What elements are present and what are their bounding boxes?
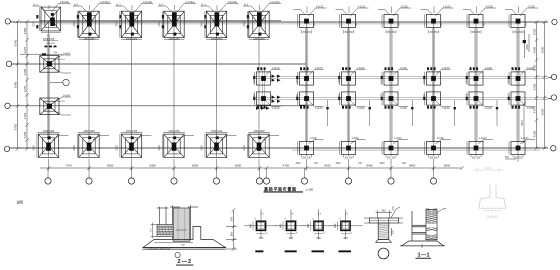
svg-text:J-3(J3a): J-3(J3a) — [60, 0, 70, 4]
node bubble Bp-right — [551, 74, 556, 79]
footing J-1 grid A5 — [205, 11, 227, 39]
footing J-1 grid D4 — [162, 133, 184, 158]
node bubble bottom 4 — [173, 168, 175, 178]
svg-text:1350 1350: 1350 1350 — [211, 38, 223, 41]
wire extension col x131.5 — [131, 159, 133, 171]
svg-text:350 350: 350 350 — [429, 32, 438, 34]
svg-text:2700: 2700 — [243, 21, 246, 27]
svg-text:1400: 1400 — [508, 78, 510, 84]
leader label footing D6 — [248, 133, 279, 140]
svg-text:2700: 2700 — [33, 21, 36, 27]
wire extension col x216.5 — [216, 159, 218, 171]
node bubble bottom 11 — [433, 168, 435, 178]
leader label footing A7 — [294, 8, 327, 16]
wire extension col x391 — [390, 159, 392, 171]
svg-text:2480: 2480 — [23, 27, 27, 34]
svg-text:9600: 9600 — [541, 108, 545, 115]
wire tie-beam column R4 gray — [432, 28, 434, 142]
svg-text:1400: 1400 — [314, 21, 316, 27]
svg-text:J-3(J3a): J-3(J3a) — [185, 0, 195, 4]
svg-text:1400: 1400 — [399, 21, 401, 27]
scale bar x255.3 — [255, 250, 263, 252]
svg-text:J-2(J2): J-2(J2) — [352, 137, 360, 140]
wire tie-beam column R1 gray — [305, 28, 307, 142]
svg-text:2700: 2700 — [116, 21, 119, 27]
footing J-4 grid C1 — [40, 98, 59, 115]
svg-text:J-3(J3): J-3(J3) — [485, 67, 493, 70]
svg-text:JL-1: JL-1 — [33, 3, 38, 6]
svg-text:350 350: 350 350 — [302, 32, 311, 34]
leader label footing D5 — [206, 133, 237, 140]
svg-text:850: 850 — [230, 231, 234, 236]
dim cluster below A1 — [42, 46, 57, 56]
node bubble bottom 3 — [131, 168, 133, 178]
svg-text:1350 1350: 1350 1350 — [83, 38, 95, 41]
node bubble bottom 6 — [259, 168, 261, 178]
svg-text:1400: 1400 — [339, 93, 341, 99]
leader label footing D10 — [436, 140, 451, 145]
svg-text:1400: 1400 — [254, 78, 256, 84]
svg-text:1400: 1400 — [484, 21, 486, 27]
detail section 2-2 column fill — [173, 208, 190, 241]
dimension chain bottom — [40, 166, 464, 170]
svg-text:3500: 3500 — [379, 163, 385, 165]
node bubble bottom 9 — [348, 168, 350, 178]
leader label footing Bp1 — [309, 70, 324, 76]
leader marks below D12 — [505, 156, 518, 162]
svg-text:JL-1: JL-1 — [116, 3, 121, 6]
footing J-1 grid D6 — [247, 133, 269, 158]
svg-text:1400: 1400 — [297, 78, 299, 84]
detail section 2-2 ground lines — [143, 247, 226, 249]
leader label footing Cp5 — [478, 101, 493, 107]
wire extension col x89 — [88, 159, 90, 171]
svg-text:8700: 8700 — [14, 39, 18, 46]
grid line column 7 — [306, 22, 308, 156]
node bubble A-right — [552, 19, 557, 24]
svg-text:J-3(J3): J-3(J3) — [357, 67, 365, 70]
leader label footing Bp3 — [393, 70, 408, 76]
svg-text:8430: 8430 — [324, 163, 331, 167]
wire tie-beam row D secondary gray — [292, 149, 540, 151]
svg-text:8280: 8280 — [149, 163, 156, 167]
detail section 2-2 right dim — [226, 208, 237, 251]
svg-text:说明: 说明 — [17, 199, 23, 204]
grid line column 8 — [348, 22, 350, 156]
svg-text:J-3(J3): J-3(J3) — [315, 107, 323, 110]
leader label footing A1 — [33, 4, 71, 13]
svg-text:1400: 1400 — [508, 93, 510, 99]
svg-text:J-3(J3a): J-3(J3a) — [143, 0, 153, 4]
footing J-3 grid Bp1 — [298, 72, 314, 85]
svg-text:J-2(J2): J-2(J2) — [521, 137, 529, 140]
svg-text:1350 1350: 1350 1350 — [43, 130, 55, 133]
svg-text:J-2(J2): J-2(J2) — [316, 5, 324, 8]
node bubble bottom 5 — [216, 168, 218, 178]
wire stub column x369.75 — [369, 100, 371, 126]
svg-text:J-2(J2): J-2(J2) — [401, 5, 409, 8]
footing J-3 grid Cp1 — [298, 92, 314, 105]
svg-text:1400: 1400 — [254, 93, 256, 99]
svg-text:J-3(J3): J-3(J3) — [272, 107, 280, 110]
detail T marker circle — [378, 248, 389, 259]
footing J-2 grid A7 — [298, 14, 314, 27]
svg-text:J-3(J3a): J-3(J3a) — [228, 0, 238, 4]
grid line column 5 — [216, 22, 218, 158]
arrow marks col6a row Cp — [272, 96, 281, 103]
leader label footing Cp0 — [266, 101, 281, 107]
svg-text:J-3(J3): J-3(J3) — [527, 107, 535, 110]
footing J-1 grid A1 — [40, 7, 61, 32]
footing J-2 grid A9 — [382, 14, 398, 27]
svg-text:1400: 1400 — [339, 78, 341, 84]
scale bar x311.5 — [312, 250, 325, 252]
svg-text:J-3(J3): J-3(J3) — [315, 67, 323, 70]
footing J-3 grid Bp2 — [340, 72, 356, 85]
svg-text:1400: 1400 — [466, 93, 468, 99]
svg-text:400: 400 — [249, 223, 253, 228]
footing J-1 grid D5 — [205, 133, 227, 158]
svg-text:1400: 1400 — [381, 93, 383, 99]
svg-text:4200: 4200 — [23, 68, 27, 75]
svg-text:240: 240 — [381, 209, 386, 213]
node bubble B-left — [6, 61, 11, 66]
svg-text:J-3(J3): J-3(J3) — [400, 67, 408, 70]
detail 1-1 tie lines — [412, 225, 426, 234]
wire tie-beam column R6 gray — [517, 28, 519, 142]
svg-text:350 350: 350 350 — [472, 32, 481, 34]
svg-text:1350 1350: 1350 1350 — [253, 38, 265, 41]
grid line row Cp stub — [548, 98, 551, 100]
svg-text:J-3(J3): J-3(J3) — [272, 67, 280, 70]
wire tie-beam column 1 gray — [47, 34, 49, 140]
svg-text:600 600: 600 600 — [57, 59, 66, 61]
dimension chain right outer — [543, 20, 547, 150]
grid line column 11 — [475, 22, 477, 156]
svg-text:J-3(J3): J-3(J3) — [400, 107, 408, 110]
footing J-1 grid A2 — [77, 11, 99, 39]
footing J-3 grid Cp6 — [509, 92, 525, 105]
svg-text:1400: 1400 — [424, 93, 426, 99]
grid line row B — [12, 63, 306, 65]
scale bar x338.5 — [339, 250, 352, 252]
leader label footing Cp4 — [436, 101, 451, 107]
grid line column 12 — [517, 22, 519, 156]
svg-text:8280: 8280 — [107, 163, 114, 167]
svg-text:J-3(J3): J-3(J3) — [527, 67, 535, 70]
svg-text:8700: 8700 — [14, 81, 18, 88]
wire tie-beam column 6a gray — [262, 70, 264, 106]
leader label footing A12 — [505, 8, 538, 16]
svg-text:4760: 4760 — [283, 163, 290, 167]
svg-text:J-2(J2): J-2(J2) — [528, 5, 536, 8]
svg-text:J-2(J2): J-2(J2) — [437, 137, 445, 140]
footing J-2 grid D7 — [298, 141, 314, 154]
svg-text:1500: 1500 — [533, 28, 537, 35]
svg-text:400: 400 — [289, 236, 294, 240]
grid line column 2 — [88, 22, 90, 158]
svg-text:1350 1350: 1350 1350 — [168, 38, 180, 41]
wire extension col x174 — [173, 159, 175, 171]
footing J-2 grid A12 — [509, 14, 525, 27]
dimension chain left outer — [16, 20, 20, 151]
footing J-3 grid Cp2 — [340, 92, 356, 105]
svg-text:8490: 8490 — [409, 163, 416, 167]
svg-text:370: 370 — [391, 229, 394, 234]
node bubble Cp-right — [551, 95, 556, 100]
footing J-3 grid Bp0 — [255, 72, 271, 85]
svg-text:JL-1: JL-1 — [201, 3, 206, 6]
leader label footing A3 — [116, 4, 154, 13]
detail column section sec4 — [329, 209, 363, 239]
leader label footing D8 — [351, 140, 366, 145]
wire tie-beam column R2 gray — [347, 28, 349, 142]
grid line column 6 — [258, 22, 260, 158]
wire extension col x433.5 — [433, 159, 435, 171]
grid line row A — [10, 21, 548, 23]
detail column section sec1 — [244, 209, 278, 239]
dimension chain right inner — [535, 20, 539, 150]
leader label footing C1 — [55, 97, 71, 115]
wire extension col x259 — [258, 159, 260, 171]
detail column section sec2 — [274, 209, 308, 239]
leader label footing Bp6 — [520, 70, 535, 76]
leader label footing Bp2 — [351, 70, 366, 76]
leader label footing D2 — [78, 133, 109, 140]
svg-text:J-2(J2): J-2(J2) — [486, 5, 494, 8]
grid line column 4 — [173, 22, 175, 158]
svg-text:8280: 8280 — [235, 163, 242, 167]
wire stub column x327.5 — [327, 100, 329, 126]
svg-text:J-3(J3): J-3(J3) — [442, 67, 450, 70]
grid line row Bp stub — [548, 77, 552, 79]
svg-text:4470: 4470 — [23, 46, 27, 53]
svg-text:400: 400 — [306, 223, 310, 228]
grid line column 3 — [131, 22, 133, 158]
svg-text:2700: 2700 — [243, 145, 246, 151]
footing J-3 grid Bp4 — [425, 72, 441, 85]
node bubble D-right — [551, 146, 556, 151]
svg-text:JL-1: JL-1 — [74, 3, 79, 6]
svg-text:400: 400 — [259, 236, 264, 240]
node bubble A-left — [5, 19, 10, 24]
svg-text:4200: 4200 — [533, 83, 537, 90]
footing J-3 grid Bp6 — [509, 72, 525, 85]
footing J-2 grid A8 — [340, 14, 356, 27]
svg-text:2700: 2700 — [73, 21, 76, 27]
svg-text:4200: 4200 — [23, 131, 27, 138]
svg-text:J-2(J2): J-2(J2) — [443, 5, 451, 8]
footing J-1 grid D1 — [37, 133, 59, 158]
footing J-3 grid Cp4 — [425, 92, 441, 105]
footing J-3 grid Bp3 — [382, 72, 398, 85]
svg-text:JL-1: JL-1 — [244, 3, 249, 6]
scale bar x284.6 — [285, 250, 297, 252]
svg-text:600 600: 600 600 — [47, 43, 56, 45]
footing J-1 grid A3 — [120, 11, 142, 39]
svg-text:400: 400 — [333, 223, 337, 228]
svg-text:400: 400 — [279, 223, 283, 228]
leader label footing D3 — [121, 133, 152, 140]
detail T-section stem hatch — [378, 223, 389, 240]
leader label footing A11 — [463, 8, 496, 16]
svg-text:1350 1350: 1350 1350 — [211, 130, 223, 133]
detail 1-1 left line — [411, 211, 413, 241]
detail section 2-2 wall verticals — [157, 206, 198, 240]
wire stub column x412.25 — [411, 100, 413, 126]
svg-text:J-2(J2): J-2(J2) — [310, 137, 318, 140]
svg-text:JL-1: JL-1 — [159, 3, 164, 6]
footing J-3 grid Cp5 — [467, 92, 483, 105]
footing J-2 grid A11 — [467, 14, 483, 27]
svg-text:2700: 2700 — [33, 145, 36, 151]
arrow marks below col6a — [256, 107, 270, 110]
wire extension col x348.5 — [348, 159, 350, 171]
svg-text:350 350: 350 350 — [387, 157, 396, 159]
node bubble bottom 2 — [88, 168, 90, 178]
footing J-1 grid D3 — [120, 133, 142, 158]
watermark dim marks — [473, 167, 504, 173]
footing J-3 grid Cp0 — [255, 92, 271, 105]
svg-text:基础详图: 基础详图 — [487, 214, 498, 218]
grid line row C — [10, 105, 306, 107]
leader label footing A4 — [158, 4, 196, 13]
leader label footing Bp4 — [436, 70, 451, 76]
leader label footing D1 — [38, 133, 69, 140]
node bubble bottom 1 — [47, 168, 49, 178]
node bubble D-left — [4, 146, 9, 151]
wire crane beam line row A upper — [40, 20, 281, 22]
svg-text:1350 1350: 1350 1350 — [253, 130, 265, 133]
svg-text:1500: 1500 — [526, 44, 529, 50]
arrow marks col6a row Bp — [272, 75, 281, 82]
dimension chain left inner — [25, 20, 29, 151]
svg-text:2700: 2700 — [158, 21, 161, 27]
svg-text:8280: 8280 — [192, 163, 199, 167]
leader label footing Bp0 — [266, 70, 281, 76]
leader label footing D7 — [309, 140, 324, 145]
svg-text:J-3(J3): J-3(J3) — [357, 107, 365, 110]
detail 2-2 marker circle — [175, 252, 180, 257]
wire extension col x48.5 — [48, 159, 50, 171]
grid line column 1 — [48, 22, 50, 158]
detail 1-1 hatch gaps — [426, 224, 436, 228]
svg-text:4470: 4470 — [520, 120, 524, 126]
svg-text:3500: 3500 — [295, 163, 301, 165]
svg-text:1350 1350: 1350 1350 — [126, 38, 138, 41]
detail T-section leader — [391, 207, 400, 218]
watermark detail faint footing section — [479, 185, 506, 211]
grid line row D — [10, 147, 548, 149]
leader label footing D11 — [478, 140, 493, 145]
svg-text:9600: 9600 — [541, 46, 545, 53]
grid line column 10 — [433, 22, 435, 156]
leader label footing A2 — [73, 4, 111, 13]
leader label footing A6 — [243, 4, 281, 13]
detail section 2-2 masonry hatch — [157, 225, 173, 237]
svg-text:350 350: 350 350 — [344, 157, 353, 159]
detail section 2-2 footing profile — [143, 227, 226, 248]
wire tie-beam row Bp gray — [256, 76, 548, 78]
svg-text:1400: 1400 — [297, 93, 299, 99]
detail 1-1 base — [402, 241, 444, 246]
svg-text:7470: 7470 — [65, 163, 72, 167]
detail column section sec3 — [302, 209, 336, 239]
svg-text:J-4(J4): J-4(J4) — [63, 52, 71, 55]
svg-text:5800: 5800 — [444, 163, 451, 167]
leader label footing Cp3 — [393, 101, 408, 107]
wire stub column x497 — [496, 100, 498, 126]
leader label footing A9 — [378, 8, 411, 16]
footing J-2 grid D12 — [509, 141, 525, 154]
svg-text:3140: 3140 — [485, 166, 491, 170]
svg-text:400: 400 — [343, 236, 348, 240]
svg-text:2700: 2700 — [73, 145, 76, 151]
wire tie-beam row A secondary gray — [40, 23, 520, 25]
detail T-section side ticks — [364, 218, 403, 236]
svg-text:1350 1350: 1350 1350 — [168, 130, 180, 133]
svg-text:J-2(J2): J-2(J2) — [358, 5, 366, 8]
wire extension col x306.5 — [306, 159, 308, 171]
footing J-1 grid A6 — [247, 11, 269, 39]
dimension strip col12 upper — [525, 30, 530, 58]
svg-text:J-3(J3): J-3(J3) — [442, 107, 450, 110]
svg-text:1400: 1400 — [526, 21, 528, 27]
svg-text:350 350: 350 350 — [344, 32, 353, 34]
leader label footing D12 — [520, 140, 535, 145]
svg-text:1400: 1400 — [356, 21, 358, 27]
svg-text:2700: 2700 — [158, 145, 161, 151]
svg-text:J-3(J3a): J-3(J3a) — [100, 0, 110, 4]
svg-text:1400: 1400 — [466, 78, 468, 84]
svg-text:1350 1350: 1350 1350 — [126, 130, 138, 133]
svg-text:2700: 2700 — [201, 21, 204, 27]
svg-text:900: 900 — [230, 216, 234, 221]
node bubble C-left — [5, 103, 10, 108]
node bubble bottom 7 — [266, 168, 268, 178]
svg-text:600 600: 600 600 — [57, 101, 66, 103]
svg-text:J-2(J2): J-2(J2) — [479, 137, 487, 140]
detail 1-1 leader curve — [437, 208, 446, 213]
leader label footing Cp1 — [309, 101, 324, 107]
svg-text:2700: 2700 — [116, 145, 119, 151]
footing J-3 grid Cp3 — [382, 92, 398, 105]
callout circle near B1 — [50, 82, 63, 84]
svg-text:400: 400 — [316, 236, 321, 240]
svg-text:2700: 2700 — [201, 145, 204, 151]
wire stub column x454.75 — [454, 100, 456, 126]
svg-text:1—1: 1—1 — [418, 252, 430, 258]
footing J-1 grid A4 — [162, 11, 184, 39]
wire tie-beam column R5 gray — [475, 28, 477, 142]
footing J-2 grid D11 — [467, 141, 483, 154]
detail T-section flange — [370, 218, 399, 223]
svg-text:1400: 1400 — [424, 78, 426, 84]
svg-text:4200: 4200 — [533, 46, 537, 53]
svg-text:J-3(J3): J-3(J3) — [485, 107, 493, 110]
dimension strip col12 — [522, 102, 526, 144]
leader label footing D9 — [393, 140, 408, 145]
svg-text:3500: 3500 — [335, 163, 341, 165]
svg-text:8700: 8700 — [14, 123, 18, 130]
svg-text:2—2: 2—2 — [178, 259, 192, 265]
svg-text:350 350: 350 350 — [514, 32, 523, 34]
detail T-section top dim — [376, 206, 394, 218]
svg-text:4200: 4200 — [533, 130, 537, 137]
leader label footing Bp5 — [478, 70, 493, 76]
footing J-2 grid D10 — [425, 141, 441, 154]
svg-text:4470: 4470 — [23, 112, 27, 119]
